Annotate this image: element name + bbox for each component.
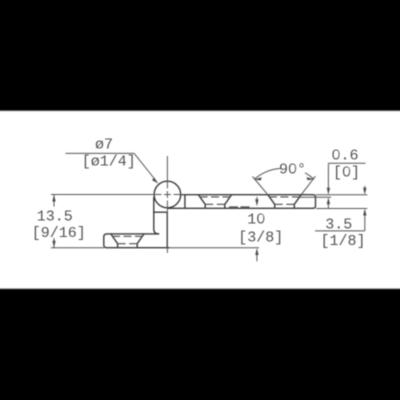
label O7 underline xyxy=(66,152,135,154)
arrowhead 13.5 top (up) xyxy=(52,195,55,202)
svg-text:3.5: 3.5 xyxy=(325,216,352,233)
dimension 0.6 lower tail xyxy=(327,203,329,208)
hidden feature line between holes B and C xyxy=(229,206,250,208)
dimension 13.5 line upper segment xyxy=(53,195,55,207)
arrowhead 90deg arc left end xyxy=(254,177,262,180)
knuckle curl bottom edge xyxy=(154,211,168,213)
dimension 10 lower tail xyxy=(256,254,258,262)
arrowhead 90deg arc right end xyxy=(306,177,314,180)
extension line: plate bottom to the left xyxy=(51,247,104,249)
svg-text:[1/8]: [1/8] xyxy=(320,233,365,250)
white drawing canvas band xyxy=(0,111,400,289)
lower plate left end rounded xyxy=(104,234,107,248)
lower plate top edge xyxy=(107,233,159,235)
arrowhead 10 bottom (up) xyxy=(255,248,258,255)
hole A hidden opening edge (dashed) xyxy=(112,235,143,237)
countersunk hole C (right) in right leaf: cone sides xyxy=(268,195,301,209)
dimension 10 upper line xyxy=(256,197,258,201)
svg-text:ø7: ø7 xyxy=(95,136,113,153)
svg-text:[9/16]: [9/16] xyxy=(32,225,86,242)
arrowhead 0.6 upper (down) xyxy=(327,188,330,195)
pin knuckle circle O7 xyxy=(154,181,181,208)
90 degree dimension arc left part xyxy=(254,168,281,179)
right leaf left end joint line xyxy=(184,195,186,209)
90 degree extension line left (cone side extended) xyxy=(253,177,268,195)
extension line: leaf top surface, right xyxy=(316,194,367,196)
dimension 3.5 lower tail and text underline xyxy=(315,214,365,231)
hole C hidden opening edge (dashed) xyxy=(269,196,300,198)
arrowhead 0.6 lower (up) xyxy=(327,197,330,204)
horizontal centerline of pin xyxy=(51,194,184,196)
90 degree extension line right (cone side extended) xyxy=(301,176,315,195)
zero glyph dot covers (CAD zeros have no center dot) xyxy=(259,151,348,220)
hole B hidden cone bottom edge (dashed) xyxy=(205,203,225,205)
svg-text:[ø1/4]: [ø1/4] xyxy=(82,154,136,171)
right leaf top edge xyxy=(181,194,313,196)
dimension 0.6 upper tail xyxy=(327,163,329,188)
hole C hidden cone bottom edge (dashed) xyxy=(275,203,295,205)
svg-text:13.5: 13.5 xyxy=(37,209,73,226)
lower plate bottom edge xyxy=(107,247,169,249)
riser left edge with bend into lower plate top xyxy=(154,198,159,234)
countersunk hole B (left) in right leaf: cone sides xyxy=(198,195,231,209)
svg-text:[3/8]: [3/8] xyxy=(238,230,283,247)
right leaf bottom edge xyxy=(167,207,313,209)
label O7 leader line xyxy=(134,153,156,181)
arrowhead 3.5 upper (down) xyxy=(363,188,366,195)
dimension 3.5 upper tail xyxy=(364,186,366,189)
90 degree dimension arc right part xyxy=(305,173,314,179)
vertical centerline of pin xyxy=(166,156,168,253)
arrowhead 10 top (down) xyxy=(255,199,258,206)
right leaf right end with rounded corners xyxy=(313,195,316,209)
hole A hidden cone bottom edge (dashed) xyxy=(118,243,138,245)
dimension 0.6 landing line xyxy=(328,162,365,164)
arrowhead O7 leader xyxy=(152,177,158,183)
extension line: leaf bottom surface, right xyxy=(316,208,367,210)
extension line: plate bottom to the right xyxy=(169,247,259,249)
riser right edge xyxy=(166,212,168,248)
hole B hidden opening edge (dashed) xyxy=(200,196,231,198)
dimension 13.5 line lower segment xyxy=(53,238,55,248)
extension line: 0.6 lower reference xyxy=(298,196,331,198)
arrowhead 13.5 bottom (down) xyxy=(52,241,55,248)
arrowhead 3.5 lower (up) xyxy=(363,209,366,216)
countersunk hole A in lower plate: cone sides xyxy=(111,234,144,248)
